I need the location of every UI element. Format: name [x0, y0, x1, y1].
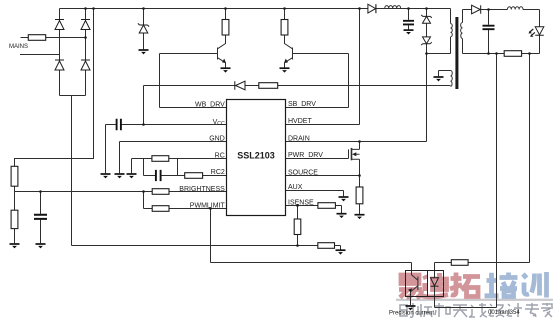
svg-text:GND: GND — [209, 136, 225, 143]
svg-text:ISENSE: ISENSE — [288, 199, 314, 206]
svg-text:RC2: RC2 — [211, 169, 225, 176]
svg-text:BRIGHTNESS: BRIGHTNESS — [179, 186, 225, 193]
svg-text:WB_DRV: WB_DRV — [195, 102, 225, 109]
svg-text:RC: RC — [215, 152, 225, 159]
svg-text:AUX: AUX — [288, 184, 303, 191]
svg-text:SOURCE: SOURCE — [288, 169, 318, 176]
svg-text:MAINS: MAINS — [9, 44, 28, 50]
svg-text:PWR_DRV: PWR_DRV — [288, 152, 323, 159]
svg-text:DRAIN: DRAIN — [288, 135, 310, 142]
svg-text:Precision current: Precision current — [389, 311, 434, 317]
svg-text:001aam354: 001aam354 — [488, 310, 520, 316]
svg-text:SSL2103: SSL2103 — [237, 150, 275, 160]
svg-text:VCC: VCC — [213, 119, 225, 127]
svg-text:HVDET: HVDET — [288, 118, 312, 125]
svg-text:PWMLIMIT: PWMLIMIT — [190, 203, 226, 210]
svg-text:SB_DRV: SB_DRV — [288, 101, 316, 108]
